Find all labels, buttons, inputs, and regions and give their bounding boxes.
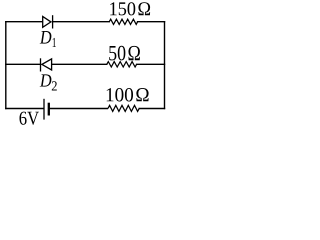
label 50 ohm xyxy=(109,46,140,61)
label 6V xyxy=(20,112,39,125)
resistor R1 150 ohm xyxy=(109,19,137,24)
wire top branch right segment xyxy=(138,21,165,23)
label D2 xyxy=(40,74,57,90)
diode D1 xyxy=(43,15,53,28)
wire right vertical bus xyxy=(164,22,166,109)
wire top branch left segment xyxy=(6,21,43,23)
wire middle branch middle segment xyxy=(52,63,107,65)
wire bottom branch right segment xyxy=(139,108,164,110)
battery 6V xyxy=(44,99,49,120)
label 100 ohm xyxy=(107,88,149,102)
resistor R2 50 ohm xyxy=(107,62,137,67)
wire middle branch left segment xyxy=(6,63,41,65)
wire middle branch right segment xyxy=(137,63,165,65)
wire left vertical bus xyxy=(5,22,7,109)
diode D2 xyxy=(41,58,52,71)
label 150 ohm xyxy=(110,2,150,15)
wire bottom branch middle segment xyxy=(50,108,108,110)
wire bottom branch left segment xyxy=(6,108,44,110)
wire top branch middle segment xyxy=(53,21,110,23)
resistor R3 100 ohm xyxy=(108,105,139,111)
label D1 xyxy=(40,31,56,47)
